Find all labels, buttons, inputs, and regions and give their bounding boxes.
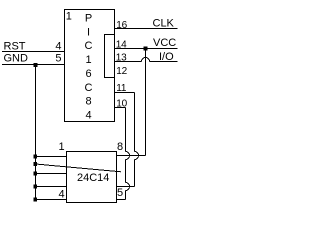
svg-text:P: P bbox=[85, 13, 92, 25]
wire U2 pin4 row bbox=[36, 186, 67, 188]
svg-text:I/O: I/O bbox=[159, 51, 174, 63]
svg-text:GND: GND bbox=[4, 53, 29, 65]
wire hop pin10 vertical over pin8 wire bbox=[126, 152, 130, 160]
junction dot bus pin4 bbox=[33, 185, 37, 189]
wire diagonal bus to pin7 bbox=[36, 164, 122, 172]
svg-text:5: 5 bbox=[117, 187, 123, 199]
svg-text:13: 13 bbox=[116, 53, 127, 64]
junction dot bus bottom bbox=[33, 198, 37, 202]
svg-text:5: 5 bbox=[55, 53, 61, 65]
junction dot bus pin3 bbox=[33, 172, 37, 176]
wire VCC vertical to pin8 bbox=[145, 49, 147, 156]
svg-text:8: 8 bbox=[85, 96, 91, 108]
wire pin11 horizontal bbox=[115, 92, 135, 94]
junction dot GND bus bbox=[34, 63, 38, 67]
svg-text:1: 1 bbox=[85, 54, 91, 66]
wire U2 bottom left bbox=[36, 199, 67, 201]
wire I/O pin13 segment left of hop bbox=[115, 61, 142, 63]
svg-text:4: 4 bbox=[85, 110, 91, 122]
wire VCC pin14 bbox=[115, 48, 178, 50]
svg-text:C: C bbox=[85, 82, 93, 94]
svg-text:8: 8 bbox=[117, 141, 123, 153]
svg-text:CLK: CLK bbox=[153, 18, 175, 30]
wire pin10 horizontal bbox=[115, 107, 126, 109]
wire I/O pin13 segment right of hop bbox=[150, 61, 178, 63]
svg-text:10: 10 bbox=[116, 99, 127, 110]
junction dot bus diagonal bbox=[33, 162, 37, 166]
svg-text:1: 1 bbox=[66, 11, 72, 23]
svg-text:VCC: VCC bbox=[153, 37, 176, 49]
wire pin10 vertical middle bbox=[125, 160, 127, 183]
wire U2 pin8 to VCC bbox=[117, 155, 146, 157]
svg-text:I: I bbox=[87, 26, 90, 38]
svg-text:1: 1 bbox=[59, 141, 65, 153]
wire pin10 vertical upper bbox=[125, 108, 127, 152]
junction dot bus pin1 bbox=[33, 155, 37, 159]
wire CLK pin16 bbox=[115, 28, 178, 30]
svg-text:11: 11 bbox=[116, 83, 127, 94]
wire hop pin10 vertical over pin6 wire bbox=[126, 183, 130, 191]
wire U2 pin3 bbox=[36, 173, 67, 175]
wire U2 pin5 row bbox=[117, 199, 126, 201]
junction dot VCC bbox=[144, 47, 148, 51]
wire ground bus vertical bbox=[35, 65, 37, 200]
wire bracket pin15 to pin12 bbox=[105, 35, 115, 78]
IC U2 24C14 box bbox=[67, 152, 117, 203]
svg-text:6: 6 bbox=[85, 68, 91, 80]
wire U2 pin6 row bbox=[117, 186, 135, 188]
wire pin10 vertical lower bbox=[125, 191, 127, 200]
wire RST bbox=[2, 51, 65, 53]
IC U1 PIC16C84 box bbox=[65, 10, 115, 122]
svg-text:C: C bbox=[85, 40, 93, 52]
svg-text:4: 4 bbox=[59, 189, 65, 201]
wire hop pin11 vertical over pin8 wire bbox=[135, 152, 139, 160]
svg-text:24C14: 24C14 bbox=[77, 172, 109, 184]
wire GND bbox=[2, 64, 65, 66]
svg-text:4: 4 bbox=[55, 41, 61, 53]
svg-text:16: 16 bbox=[116, 20, 127, 31]
wire pin11 vertical lower bbox=[134, 160, 136, 187]
wire U2 pin1 bbox=[36, 156, 67, 158]
wire pin11 vertical upper bbox=[134, 93, 136, 152]
svg-text:12: 12 bbox=[116, 66, 127, 77]
svg-text:RST: RST bbox=[4, 41, 26, 53]
svg-text:14: 14 bbox=[116, 40, 127, 51]
wire hop I/O over VCC vertical bbox=[142, 58, 150, 62]
